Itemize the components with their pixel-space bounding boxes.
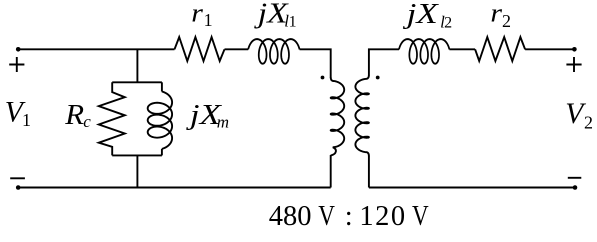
svg-text:1: 1	[289, 14, 297, 31]
resistor r2	[475, 37, 525, 61]
svg-text:R: R	[64, 100, 84, 130]
wire: bottom rail right	[369, 187, 575, 189]
plus sign right	[566, 57, 581, 72]
wire: jXl1 to transformer primary	[300, 49, 331, 77]
svg-text:1: 1	[22, 110, 31, 130]
transformer primary winding L1	[331, 77, 345, 155]
resistor r1	[175, 37, 225, 61]
svg-text:m: m	[217, 113, 229, 132]
minus sign right	[568, 177, 582, 179]
wire: primary bottom lead	[330, 155, 332, 187]
node: shunt junction stem top	[136, 49, 138, 82]
svg-text:2: 2	[502, 11, 511, 31]
node: shunt junction stem bottom	[136, 155, 138, 187]
terminal dot top-left	[16, 47, 21, 52]
wire: r2 to V2 terminal	[525, 48, 574, 50]
terminal dot bottom-right	[573, 185, 578, 190]
svg-text:2: 2	[444, 14, 452, 31]
wire: r1 to jXl1	[225, 48, 249, 50]
polarity dot secondary	[376, 76, 380, 80]
inductor jXm	[161, 82, 163, 91]
svg-text:2: 2	[584, 112, 593, 132]
svg-text:V: V	[318, 200, 335, 232]
terminal dot bottom-left	[16, 185, 21, 190]
inductor jXl2	[399, 39, 449, 64]
inductor jXl1	[248, 39, 299, 64]
polarity dot primary	[321, 76, 325, 80]
wire: secondary top lead	[369, 49, 399, 75]
wire: top rail left (V1 + terminal to r1)	[18, 48, 174, 50]
svg-text:jX: jX	[402, 0, 439, 29]
plus sign left	[9, 57, 24, 72]
terminal dot top-right	[572, 47, 577, 52]
wire: shunt top bar	[112, 81, 162, 83]
svg-text:1: 1	[204, 10, 213, 30]
wire: shunt bottom bar	[112, 154, 162, 156]
svg-text::: :	[345, 201, 353, 232]
wire: jXl2 to r2	[449, 48, 475, 50]
resistor Rc	[99, 82, 125, 155]
svg-text:c: c	[83, 112, 91, 131]
svg-text:120: 120	[359, 201, 406, 232]
svg-text:r: r	[191, 0, 203, 28]
wire: secondary bottom lead	[368, 156, 370, 188]
svg-text:480: 480	[269, 201, 312, 232]
svg-text:r: r	[490, 0, 502, 28]
transformer secondary winding L2	[355, 75, 369, 156]
wire: bottom rail left	[18, 187, 331, 189]
svg-text:V: V	[412, 200, 429, 232]
minus sign left	[10, 177, 25, 179]
